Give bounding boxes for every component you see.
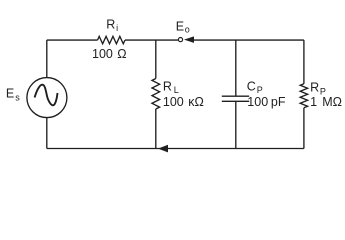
svg-text:R: R [163,80,172,94]
svg-text:100: 100 [163,95,184,109]
svg-text:κΩ: κΩ [188,95,204,109]
svg-text:L: L [174,85,179,95]
svg-text:MΩ: MΩ [322,95,342,109]
svg-text:C: C [247,79,256,93]
svg-text:E: E [6,87,14,101]
svg-text:pF: pF [271,95,286,109]
svg-text:100: 100 [247,95,268,109]
svg-text:100: 100 [92,47,113,61]
svg-text:Ω: Ω [117,47,126,61]
svg-text:R: R [106,18,115,32]
svg-text:P: P [257,85,263,95]
svg-text:R: R [310,81,319,95]
svg-text:1: 1 [310,95,317,109]
svg-text:E: E [176,20,184,34]
svg-text:o: o [185,25,190,35]
svg-text:i: i [116,23,118,33]
svg-text:s: s [15,92,20,102]
